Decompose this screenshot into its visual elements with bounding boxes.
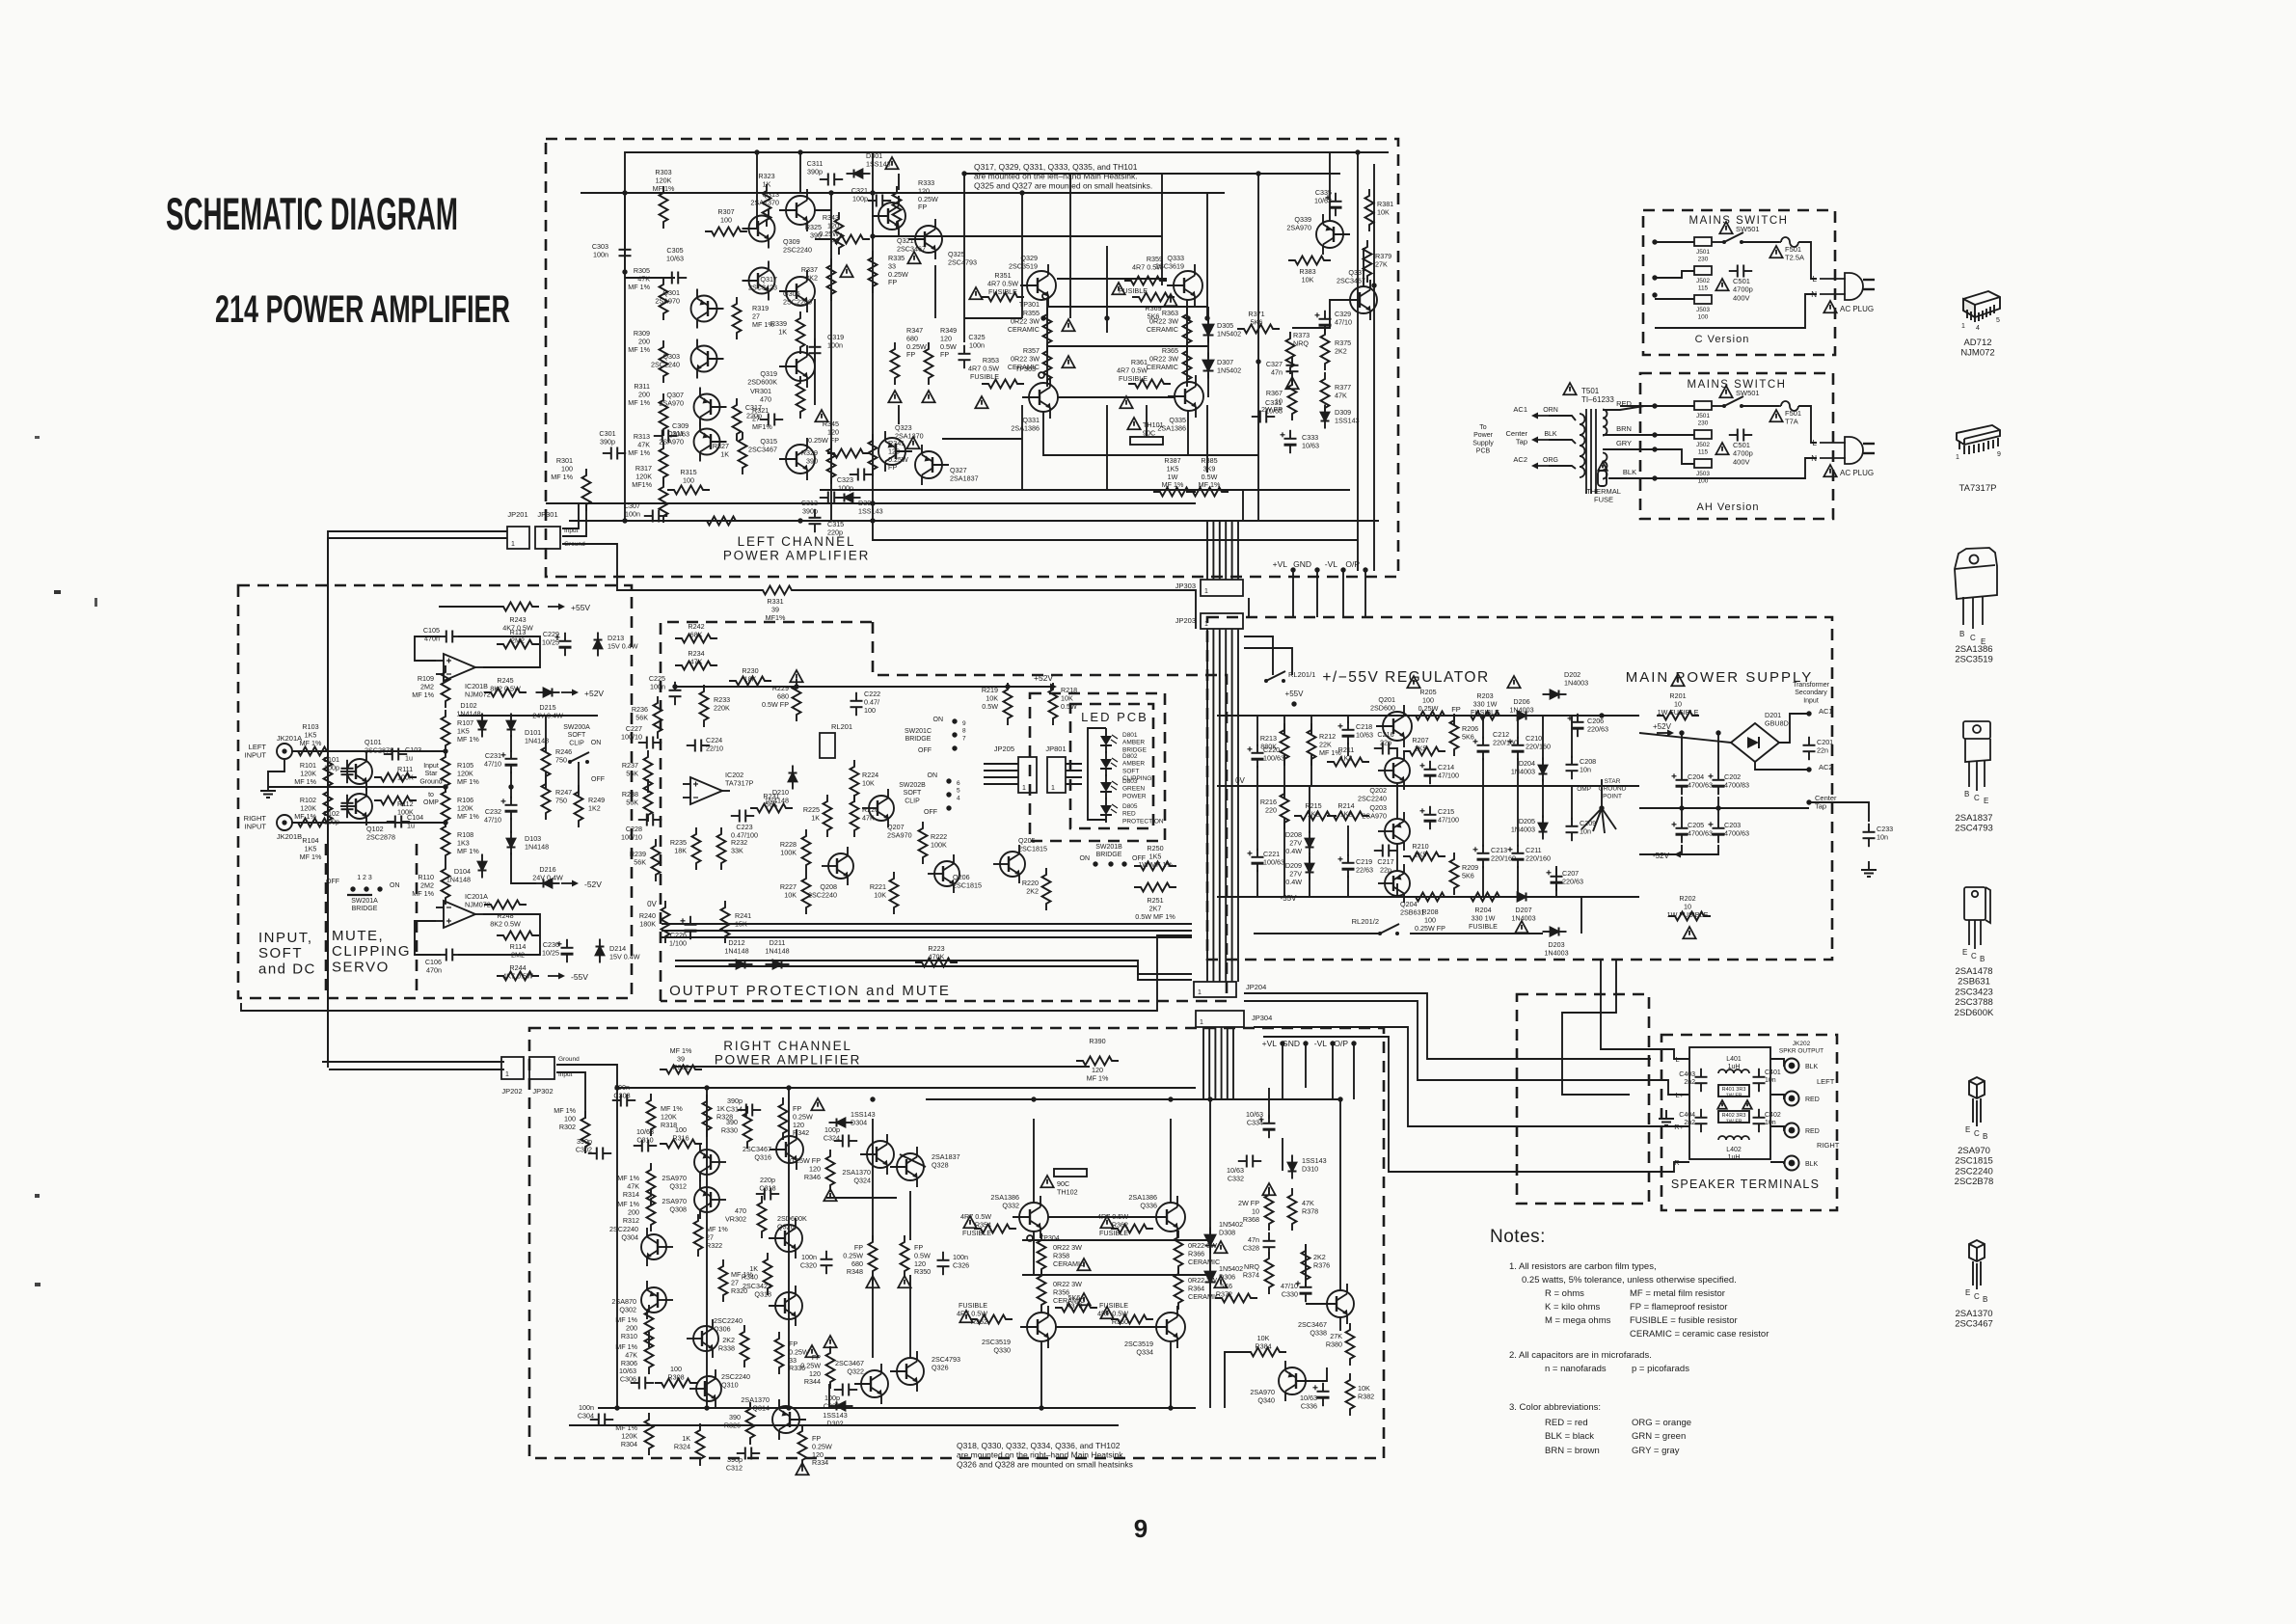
junction node 18 <box>870 233 875 238</box>
node +VL left channel <box>1290 567 1295 572</box>
input block divider 2 <box>416 844 419 998</box>
svg-text:C22910/25: C22910/25 <box>542 630 559 646</box>
wire bundle JP201 to input block <box>328 531 507 1068</box>
ground speaker <box>1659 1110 1674 1125</box>
capacitor C105 <box>438 631 461 643</box>
resistor R362 <box>1111 1225 1153 1233</box>
wire input jack ground <box>268 760 284 782</box>
wire reg v c210 <box>1517 716 1519 739</box>
junction node 13 <box>1355 149 1360 154</box>
wire reg v c207 <box>1555 866 1557 897</box>
resistor R367 <box>1288 378 1297 420</box>
resistor R385 <box>1186 488 1229 497</box>
fuse F501 C version <box>1773 237 1805 247</box>
connector JP204 <box>1194 982 1236 997</box>
wire left ch out bus <box>1242 490 1244 521</box>
wire supply rail v4 <box>1717 797 1719 820</box>
resistor R247 <box>542 777 551 820</box>
svg-text:0.25 watts, 5% tolerance,: 0.25 watts, 5% tolerance, unless otherwi… <box>1522 1275 1737 1286</box>
svg-text:B: B <box>1980 955 1985 963</box>
wire out right link <box>1046 300 1048 383</box>
warning triangle R364 <box>1214 1276 1227 1287</box>
svg-text:214 POWER AMPLIFIER: 214 POWER AMPLIFIER <box>215 288 510 331</box>
transistor Q320 <box>769 1218 802 1259</box>
wire output node v <box>1257 174 1259 490</box>
warning triangle R355 <box>1062 319 1074 331</box>
LED D801 <box>1100 728 1118 753</box>
diode D207 <box>1510 893 1534 902</box>
wire right ch grid h5 <box>1282 1138 1283 1171</box>
resistor R311 <box>660 393 668 436</box>
svg-text:C317220p: C317220p <box>745 403 762 420</box>
svg-text:C101100p: C101100p <box>323 755 339 771</box>
svg-text:R1142M2: R1142M2 <box>510 942 527 959</box>
junction node 16 <box>797 149 802 154</box>
capacitor C305 <box>663 272 687 284</box>
junction node 28 <box>870 1096 875 1101</box>
wire right ch top rail <box>675 1066 1090 1068</box>
resistor R204 <box>1464 893 1506 902</box>
capacitor C227 <box>638 737 662 749</box>
svg-text:TP304: TP304 <box>1040 1235 1060 1242</box>
wire left ch grid v6 <box>1106 405 1108 490</box>
wire r243 <box>439 606 503 608</box>
resistor R104 <box>291 819 334 827</box>
svg-text:1: 1 <box>1051 785 1055 792</box>
jumper J503 <box>1694 295 1712 304</box>
warning triangle R362 <box>1100 1216 1113 1228</box>
svg-text:987: 987 <box>962 720 966 742</box>
wire right ch grid h3 <box>1056 1326 1156 1328</box>
wire right ch bottom h <box>828 1384 830 1408</box>
svg-text:C: C <box>1970 634 1976 642</box>
svg-text:RIGHT CHANNELPOWER AMPLIFIER: RIGHT CHANNELPOWER AMPLIFIER <box>715 1039 861 1068</box>
junction node 1 <box>622 190 627 195</box>
resistor R342 <box>779 1097 788 1140</box>
warning triangle R335 <box>907 252 920 263</box>
svg-text:R2141K2: R2141K2 <box>1337 801 1354 818</box>
resistor R353 <box>982 380 1024 389</box>
resistor R227 <box>802 872 811 914</box>
resistor R314 <box>647 1163 656 1205</box>
svg-text:ON: ON <box>928 772 938 779</box>
svg-text:-52V: -52V <box>1653 852 1670 860</box>
resistor R232 <box>717 827 726 870</box>
wire mid column 2 <box>799 154 801 193</box>
wire output rail left channel <box>820 489 1350 491</box>
resistor R401 box <box>1718 1085 1749 1096</box>
wire second rail left channel <box>581 192 1225 194</box>
node center tap <box>1806 799 1811 804</box>
svg-text:+52V: +52V <box>1034 673 1053 683</box>
LED D803 <box>1100 774 1118 799</box>
resistor R302 <box>581 1111 590 1153</box>
wire left ch feedback <box>625 277 675 279</box>
wire right ch q340 link <box>1306 1367 1327 1381</box>
svg-text:R390: R390 <box>1089 1037 1105 1045</box>
svg-text:L4011uH: L4011uH <box>1726 1056 1742 1070</box>
resistor R345 <box>827 449 870 458</box>
output protection block border right <box>661 622 1227 1001</box>
capacitor C219 electrolytic <box>1338 854 1355 878</box>
resistor R230 <box>729 677 771 686</box>
wire right ch r384 link <box>1225 1352 1244 1408</box>
capacitor C214 electrolytic <box>1420 761 1437 784</box>
capacitor C326 <box>937 1252 950 1275</box>
wire reg q201 col <box>1396 747 1398 758</box>
svg-text:C106470n: C106470n <box>425 958 442 974</box>
wire driver column <box>872 152 874 521</box>
wire q339 link <box>1329 152 1331 221</box>
svg-text:RED: RED <box>1805 1096 1820 1103</box>
junction node 36 <box>1168 1405 1173 1410</box>
svg-text:47/10C330: 47/10C330 <box>1281 1282 1298 1298</box>
svg-text:4: 4 <box>1976 325 1980 332</box>
resistor R376 <box>1302 1244 1310 1286</box>
wire right ch grid v12 <box>1339 1317 1341 1331</box>
svg-text:3. Color abbreviations:: 3. Color abbreviations: <box>1509 1402 1601 1413</box>
capacitor C230 <box>557 939 574 962</box>
wire mains AH gry <box>1620 449 1694 464</box>
wire reg d203 row <box>1410 933 1543 934</box>
jumper J503 AH <box>1694 459 1712 468</box>
capacitor C313 <box>820 492 843 504</box>
capacitor C327 <box>1286 357 1299 380</box>
wire reg bottom rail <box>1217 896 1369 898</box>
junction node 43 <box>672 684 677 689</box>
wire JP301 gnd <box>562 544 762 590</box>
wire right ch col1 <box>706 1088 708 1408</box>
diode D308 <box>1205 1228 1216 1254</box>
wire reg v c212b <box>1482 758 1484 786</box>
wire reg zeners <box>1309 786 1310 833</box>
wire star ray 4 <box>1602 808 1616 829</box>
svg-text:AC2: AC2 <box>1513 455 1527 464</box>
junction node 22 <box>443 748 447 753</box>
svg-text:JP304: JP304 <box>1252 1014 1272 1022</box>
wire +52v rail protection <box>675 686 1051 688</box>
svg-text:IC201ANJM072: IC201ANJM072 <box>465 892 491 908</box>
capacitor C224 <box>687 740 710 752</box>
svg-text:LEFTINPUT: LEFTINPUT <box>245 743 267 760</box>
LED PCB inner border <box>1070 704 1153 828</box>
wire O/P top drop <box>1364 570 1366 617</box>
junction node 30 <box>1168 1096 1173 1101</box>
wire mains AH live3 <box>1742 405 1779 407</box>
capacitor C402 <box>1753 1109 1766 1132</box>
wire left ch bottom link <box>873 521 1358 540</box>
wire left ch grid v7 <box>1161 174 1163 285</box>
wire left ch r343 link <box>815 238 831 240</box>
bridge rectifier D201 <box>1731 723 1779 762</box>
wire input mid rail <box>459 715 598 717</box>
switch SW501 C version <box>1722 232 1743 244</box>
resistor R113 <box>497 640 539 649</box>
wire reg left col4b <box>1347 743 1349 756</box>
diode D209 zener <box>1306 856 1314 880</box>
wire right ch grid v5 <box>1033 1119 1035 1203</box>
wire input col r246 b <box>545 771 547 789</box>
wire right ch grid h2 <box>1048 1216 1156 1218</box>
warning triangle thermal fuse <box>1598 462 1607 471</box>
svg-text:100nC326: 100nC326 <box>953 1253 969 1269</box>
wire right ch grid v4 <box>909 1275 911 1358</box>
capacitor C209 <box>1566 818 1579 841</box>
wire input col d101 <box>510 735 512 752</box>
capacitor C225 <box>669 682 682 705</box>
svg-text:R317120KMF1%: R317120KMF1% <box>632 464 652 489</box>
wire reg feed top <box>1248 598 1250 617</box>
resistor R402 box <box>1718 1111 1749 1123</box>
wire CT <box>1549 440 1576 444</box>
diode D215 <box>536 689 560 697</box>
wire reg top rail <box>1217 715 1639 717</box>
node O/P left channel <box>1363 567 1367 572</box>
scan speck 4 <box>35 1283 41 1286</box>
wire bus protection outputs 2 <box>675 961 1192 980</box>
scan speck 5 <box>95 598 97 607</box>
wire reg left col2b <box>1283 754 1285 786</box>
transistor Q328 <box>890 1147 924 1187</box>
resistor R354 <box>974 1225 1016 1233</box>
wire mains AH n <box>1625 458 1817 478</box>
svg-text:C23147/10: C23147/10 <box>484 751 501 768</box>
capacitor C231 electrolytic <box>501 750 518 773</box>
testpoint TP303 <box>1039 372 1044 378</box>
transistor Q102 <box>340 787 372 826</box>
svg-text:R = ohms: R = ohms <box>1545 1288 1584 1299</box>
svg-text:R373NRQ: R373NRQ <box>1293 331 1310 347</box>
transistor Q204 <box>1378 864 1410 903</box>
wire reg r204 row <box>1396 883 1398 897</box>
speaker terminals inner box <box>1689 1047 1770 1159</box>
wire right ch out top <box>926 1098 1340 1100</box>
node mains C a <box>1652 239 1657 244</box>
wire AC1 <box>1549 416 1576 420</box>
junction node 23 <box>443 820 447 825</box>
resistor R334 <box>798 1424 807 1467</box>
node mains C b <box>1652 275 1657 280</box>
wire -VL bottom drop <box>1332 1043 1334 1099</box>
resistor R105 <box>442 750 450 793</box>
transistor Q311 <box>694 422 727 462</box>
wire bundle JP205 to JP801 <box>984 764 1018 784</box>
svg-text:ON: ON <box>1080 855 1091 862</box>
svg-text:AC1: AC1 <box>1819 707 1833 716</box>
transistor Q324 <box>860 1134 894 1175</box>
transistor Q321 <box>872 196 905 236</box>
resistor R112 <box>374 797 417 805</box>
wire mains AH to L <box>1799 406 1817 443</box>
resistor R102 <box>324 785 333 827</box>
transistor Q316 <box>770 1129 803 1170</box>
resistor R201 <box>1657 712 1699 720</box>
warning triangle R229 <box>790 670 802 682</box>
capacitor C329 <box>1315 311 1332 334</box>
capacitor C324 <box>834 1135 857 1148</box>
resistor R375 <box>1321 328 1330 370</box>
wire reg v d204 <box>1542 716 1544 760</box>
svg-text:C21922/63: C21922/63 <box>1356 857 1373 874</box>
capacitor C321 <box>868 195 891 207</box>
wire left ch q313 base <box>815 209 831 211</box>
svg-text:GRN = green: GRN = green <box>1632 1431 1686 1442</box>
scan speck 2 <box>35 436 40 439</box>
wire right ch grid v3 <box>872 1275 874 1358</box>
resistor R320 <box>719 1259 728 1302</box>
svg-text:B: B <box>1959 630 1964 638</box>
capacitor C228 <box>638 814 662 826</box>
node GND left channel <box>1314 567 1319 572</box>
junction node 25 <box>614 1085 619 1090</box>
resistor R341 <box>869 434 878 476</box>
resistor R239 <box>652 839 661 881</box>
resistor R328 <box>703 1095 712 1137</box>
svg-text:LEFT CHANNELPOWER AMPLIFIER: LEFT CHANNELPOWER AMPLIFIER <box>723 534 870 563</box>
svg-text:N: N <box>1811 290 1817 299</box>
resistor R303 <box>660 186 668 229</box>
resistor R241 <box>721 901 730 943</box>
resistor R310 <box>645 1305 654 1347</box>
wire opamp fb top <box>415 636 441 661</box>
node sw201c 8 <box>952 732 957 737</box>
transistor Q304 <box>641 1228 673 1266</box>
transistor Q322 <box>854 1364 888 1404</box>
transistor Q335 <box>1168 375 1203 418</box>
transistor Q314 <box>772 1399 806 1440</box>
svg-text:SW201CBRIDGE: SW201CBRIDGE <box>905 728 932 743</box>
wire top rail left channel <box>625 152 1389 272</box>
wire opamp fb bottom <box>415 921 441 955</box>
wire reg v c209 <box>1571 786 1573 820</box>
resistor R106 <box>442 785 450 827</box>
warning triangle R347 <box>888 391 901 402</box>
wire input col r246 <box>545 716 547 752</box>
resistor R337 <box>827 258 836 301</box>
wire input r249 col <box>578 762 580 797</box>
resistor R330 <box>743 1106 752 1149</box>
capacitor C330 electrolytic <box>1296 1279 1312 1302</box>
capacitor C201 <box>1803 737 1816 760</box>
wire O/P bottom drop <box>1353 1043 1355 1099</box>
jumper J502 <box>1694 266 1712 275</box>
wire GND bottom drop <box>1305 1043 1307 1088</box>
svg-text:OFF: OFF <box>918 747 932 754</box>
svg-text:1: 1 <box>1022 785 1026 792</box>
svg-text:+55V: +55V <box>571 603 590 612</box>
warning triangle R348 <box>866 1276 878 1287</box>
warning triangle R203 <box>1507 676 1520 688</box>
connector JP301 <box>535 527 560 549</box>
svg-text:10/63C332: 10/63C332 <box>1227 1166 1244 1182</box>
junction node 10 <box>1256 359 1260 364</box>
svg-text:E: E <box>1962 948 1967 957</box>
svg-text:1: 1 <box>1204 588 1208 595</box>
resistor R306 <box>645 1332 654 1374</box>
junction node 41 <box>1715 805 1720 810</box>
svg-text:C311390p: C311390p <box>807 159 824 176</box>
resistor R370 <box>1055 1304 1097 1313</box>
connector JP302 <box>529 1057 554 1079</box>
arrow AC1 <box>1531 413 1549 420</box>
svg-text:2SA13862SC3519: 2SA13862SC3519 <box>1955 644 1993 665</box>
svg-text:O/P: O/P <box>1334 1039 1348 1048</box>
node -VL right channel <box>1330 1041 1335 1045</box>
capacitor C311 <box>820 174 843 186</box>
svg-text:RED: RED <box>1805 1128 1820 1135</box>
warning triangle R363 <box>1164 294 1176 306</box>
capacitor C301 <box>603 447 626 460</box>
speaker jack RED right <box>1785 1123 1799 1138</box>
svg-text:JP205: JP205 <box>994 744 1014 753</box>
svg-text:Q317, Q329, Q331, Q333, Q335,: Q317, Q329, Q331, Q333, Q335, and TH101a… <box>974 162 1152 190</box>
svg-text:E: E <box>1984 797 1988 805</box>
capacitor C401 <box>1753 1069 1766 1092</box>
junction node 35 <box>1039 1405 1043 1410</box>
wire mains C j502 <box>1655 271 1694 278</box>
wire out right link2 <box>1186 300 1188 383</box>
svg-text:R1132M2: R1132M2 <box>510 628 527 644</box>
resistor R390 <box>1076 1057 1119 1066</box>
svg-text:FUSIBLE = fusible resistor: FUSIBLE = fusible resistor <box>1630 1315 1738 1326</box>
capacitor C203 electrolytic <box>1709 820 1725 843</box>
transistor Q208 <box>822 847 853 885</box>
svg-text:BLK: BLK <box>1623 468 1636 476</box>
svg-text:100nC304: 100nC304 <box>578 1403 594 1420</box>
node GND right channel <box>1303 1041 1308 1045</box>
node input star ground <box>443 784 447 789</box>
thermistor TH101 <box>1130 437 1163 445</box>
resistor R223 <box>915 959 958 967</box>
svg-text:B: B <box>1964 790 1969 798</box>
wire left ch th101 drop <box>1146 405 1148 437</box>
transistor Q205 <box>993 845 1025 883</box>
resistor R318 <box>647 1094 656 1136</box>
transformer T501 primary winding upper <box>1603 410 1607 436</box>
right channel power amplifier block border <box>529 1028 1384 1458</box>
transistor Q307 <box>694 388 727 427</box>
wire ac2 <box>1755 762 1809 770</box>
transistor Q206 <box>928 854 959 893</box>
diode D301 <box>847 170 871 178</box>
fuse F501 AH version <box>1773 401 1805 411</box>
resistor R203 <box>1464 712 1506 720</box>
wire left ch grid h4 <box>964 317 1022 319</box>
wire regulator to spk r <box>1562 960 1630 1095</box>
resistor R336 <box>775 1332 784 1374</box>
diode D205 <box>1539 816 1548 840</box>
capacitor C304 <box>590 1414 613 1426</box>
resistor R312 <box>647 1189 656 1232</box>
svg-text:GND: GND <box>1293 559 1311 569</box>
resistor R360 <box>1111 1315 1153 1324</box>
resistor R202 <box>1668 912 1711 921</box>
capacitor C320 <box>821 1251 833 1274</box>
warning triangle R342 <box>811 1098 824 1110</box>
arrow +52V protection <box>1040 684 1057 690</box>
capacitor C207 electrolytic <box>1547 868 1563 891</box>
resistor R205 <box>1409 712 1451 720</box>
wire reg left col3 <box>1310 716 1312 735</box>
resistor R307 <box>705 228 747 236</box>
svg-text:MF = metal film resistor: MF = metal film resistor <box>1630 1288 1725 1299</box>
speaker jack RED left <box>1785 1092 1799 1106</box>
svg-text:1: 1 <box>1200 1019 1203 1026</box>
warning triangle AC plug C <box>1823 301 1836 312</box>
svg-text:C22422/10: C22422/10 <box>706 736 723 752</box>
resistor R246 <box>542 741 551 783</box>
capacitor C309 <box>654 430 677 443</box>
